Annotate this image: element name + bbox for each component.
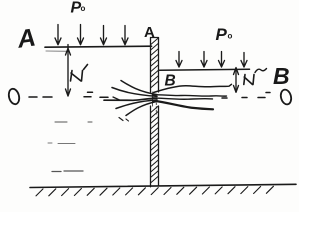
dimension h1 line [67,45,69,96]
pressure arrow left 2 [78,25,84,45]
wall upper hatching [151,38,159,88]
jet streamline top [154,84,232,92]
streamline left 1 [121,81,157,95]
pressure arrow left 4 [122,26,128,45]
stray dash row1 [55,121,92,123]
svg-text:P: P [216,25,228,44]
jet streamline mid2 [153,98,213,99]
svg-text:A: A [144,24,155,41]
wall lower hatching [151,106,159,183]
ground line [30,184,296,187]
dimension h2 arrowheads [234,68,239,93]
wall upper [151,38,159,93]
label h1 [71,71,83,82]
dimension h2 line [235,68,237,92]
pressure arrow right 2 [201,52,207,68]
smudge under surface [46,50,66,52]
jet streamline mid1 [153,95,227,96]
svg-text:A: A [15,23,38,53]
pressure arrow right 1 [176,52,182,68]
label h2 [244,75,254,85]
svg-text:o: o [81,4,86,13]
dimension h1 arrowheads [66,48,71,96]
node O right [279,89,292,106]
water surface left [45,46,152,47]
water surface right [160,69,250,70]
streamline left 5 [126,102,156,116]
streamline left 3 with barb [104,98,157,100]
pressure arrow right 4 [241,53,247,68]
pressure arrow left 1 [55,25,61,45]
jet streamline bottom [153,101,213,110]
svg-text:B: B [273,63,290,89]
pressure arrow left 3 [101,26,107,45]
centerline left dashes [29,92,108,97]
streamline left 2 [112,88,157,97]
centerline right dashes [222,93,270,99]
node O left [7,88,20,106]
stray dash row2 [48,142,75,145]
wall lower [151,106,159,187]
stray ticks left [119,118,129,122]
streamline left 4 [116,100,157,109]
pressure arrow right 3 [219,52,225,68]
stray scribble row3 [52,170,83,173]
ground hatching [36,186,273,196]
svg-text:o: o [228,32,233,41]
wall edge through slot [151,92,153,106]
